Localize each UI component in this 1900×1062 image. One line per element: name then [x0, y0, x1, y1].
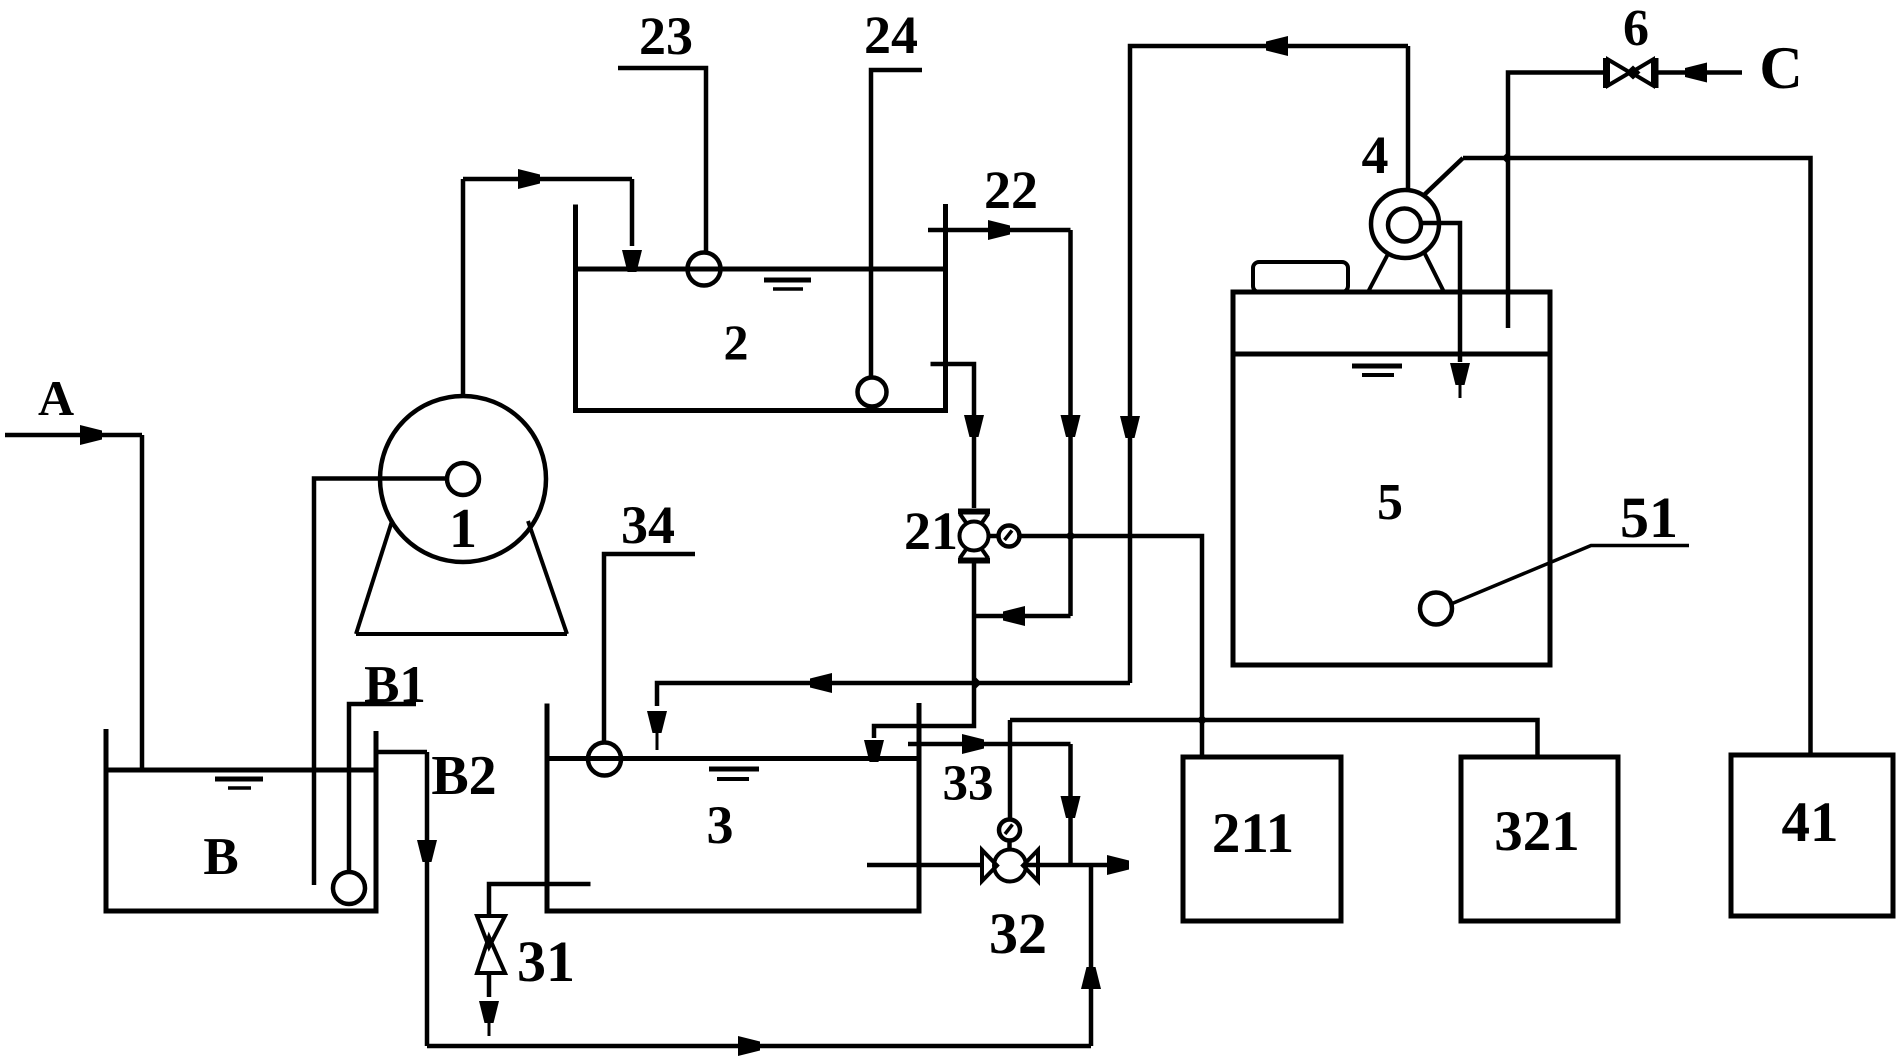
tank 2 [576, 204, 946, 411]
wire pipe A vertical into tank B [140, 435, 145, 770]
svg-text:6: 6 [1623, 0, 1649, 57]
wire pipe C inlet [1658, 70, 1742, 75]
wire valve 32 suction from tank 3 [867, 863, 982, 868]
svg-text:2: 2 [724, 314, 749, 370]
float switch B1 [333, 872, 365, 904]
wire valve 21 outlet down [874, 563, 974, 738]
svg-text:1: 1 [449, 498, 477, 560]
arrow on riser [1081, 967, 1101, 989]
pump 1 body [380, 396, 546, 562]
box 321 [1461, 757, 1618, 921]
wire pump 1 suction from tank B [314, 479, 447, 886]
level sensor 24 leader [871, 70, 922, 378]
wire B1 leader [349, 704, 416, 872]
float switch on tank 2 surface [688, 253, 721, 286]
wire from valve 21 actuator to box 211 [1020, 536, 1203, 757]
wire pump 1 discharge riser [461, 179, 466, 396]
pump 1 hub [447, 463, 479, 495]
wire pipe 22 from tank 2 [928, 228, 1071, 233]
svg-text:211: 211 [1212, 802, 1294, 865]
level sensor 34 leader [604, 554, 695, 742]
level sensor 23 leader [618, 68, 706, 252]
wire pipe A horizontal [5, 433, 142, 438]
svg-text:C: C [1759, 35, 1802, 101]
float switch 51 [1420, 593, 1452, 625]
wire B2 stub from tank B [377, 750, 427, 755]
arrow on pipe 22 [988, 220, 1010, 240]
wire pipe 33 drop to valve 32 line [1068, 744, 1073, 865]
wire discharge drop into tank 2 [630, 179, 635, 246]
arrow suction into tank 5 [1450, 363, 1470, 385]
valve 21 [958, 512, 990, 561]
svg-text:31: 31 [517, 929, 575, 994]
junction node pipe C at pump 4 header [1502, 153, 1513, 164]
water symbol tank 3 [709, 767, 759, 772]
junction node at valve 21 drop and recirculation line [971, 678, 982, 689]
valve 21 actuator stem [989, 534, 999, 539]
float switch low level tank 2 [858, 378, 887, 407]
arrow on that wire [1003, 606, 1025, 626]
arrow discharge right [1107, 855, 1129, 875]
svg-text:321: 321 [1494, 800, 1580, 863]
arrow on pipe A [80, 425, 102, 445]
water symbol tank 2 [764, 278, 811, 283]
junction box on tank 5 lid [1253, 262, 1348, 292]
svg-text:23: 23 [639, 6, 693, 66]
arrow on discharge [518, 169, 540, 189]
wire B2 bottom horizontal [427, 1044, 1091, 1049]
wire recirculation into tank 3 [657, 683, 1130, 706]
svg-text:41: 41 [1782, 791, 1839, 854]
arrow into tank 3 from valve 21 [864, 740, 884, 762]
arrow on valve 21 feed [964, 415, 984, 437]
wire pump 4 discharge header to box 41 [1463, 158, 1811, 755]
valve 6 [1606, 58, 1657, 88]
wire pump 1 discharge horizontal [463, 177, 632, 182]
svg-text:21: 21 [904, 501, 958, 561]
svg-text:33: 33 [943, 756, 994, 812]
wire pump 4 suction into tank 5 [1421, 223, 1460, 362]
arrow on top wire [1266, 36, 1288, 56]
tank 5 [1233, 292, 1550, 665]
wire pipe 22 to valve 21 branch [976, 614, 1071, 619]
wire pump 4 riser to top [1406, 46, 1411, 190]
svg-text:24: 24 [864, 5, 918, 65]
arrow into tank 2 [622, 250, 642, 272]
wire B2 down pipe [425, 752, 430, 1046]
wire pump 4 discharge diagonal [1423, 158, 1463, 196]
arrow on drop [1061, 796, 1081, 818]
valve 32 [982, 850, 1038, 882]
arrow dropping into tank 3 [647, 711, 667, 733]
water symbol tank 5 [1352, 364, 1402, 369]
tank 3 [547, 703, 919, 911]
pump 1 base legs [356, 521, 567, 634]
wire pump 4 recirculation top [1130, 46, 1408, 683]
pump 4 body [1371, 190, 1439, 258]
float switch tank 3 surface [588, 743, 621, 776]
water symbol tank B [215, 777, 263, 782]
tank B [106, 729, 376, 911]
valve 32 actuator circle [999, 820, 1020, 841]
pump 4 hub [1388, 209, 1421, 242]
svg-text:5: 5 [1377, 474, 1403, 531]
wire pipe 22 down [1068, 230, 1073, 616]
wire B2 riser to valve 32 line [1089, 865, 1094, 1046]
svg-text:B1: B1 [364, 656, 426, 714]
arrow on 1130 down [1120, 416, 1140, 438]
wire pipe 33 from tank 3 [908, 742, 1071, 747]
arrow on bottom horizontal [738, 1036, 760, 1056]
wire valve 31 drain [487, 973, 492, 997]
svg-text:A: A [38, 370, 74, 426]
wire valve 6 to tank 5 [1508, 73, 1603, 329]
svg-text:34: 34 [621, 495, 675, 555]
wire drain stub through tank 3 wall [489, 884, 591, 916]
junction node control header at box 211 riser [1197, 715, 1208, 726]
valve 32 actuator stem [1007, 840, 1012, 850]
box 41 [1731, 755, 1893, 916]
arrow on B2 down pipe [417, 840, 437, 862]
wire valve 21 feed stub from tank 2 wall [931, 364, 975, 508]
arrow on pipe 22 down [1061, 415, 1081, 437]
svg-text:4: 4 [1362, 125, 1389, 185]
wire control line to valve 32 actuator [1008, 720, 1013, 820]
svg-text:32: 32 [989, 901, 1047, 966]
arrow on recirculation horizontal [810, 673, 832, 693]
arrow on pipe C [1685, 63, 1707, 83]
svg-text:51: 51 [1620, 485, 1678, 550]
valve 31 [477, 916, 505, 973]
svg-text:3: 3 [707, 795, 734, 855]
wire control header to boxes [1010, 720, 1538, 757]
box 211 [1183, 757, 1341, 921]
junction node on actuator line at pipe 22 riser [1065, 531, 1076, 542]
svg-text:B: B [203, 828, 238, 886]
arrow drain down [479, 1001, 499, 1023]
wire valve 32 discharge [1026, 863, 1127, 868]
svg-text:B2: B2 [431, 745, 496, 807]
leader line 51 [1451, 546, 1689, 605]
pump 4 legs [1368, 252, 1444, 292]
arrow on pipe 33 [962, 734, 984, 754]
svg-text:22: 22 [984, 160, 1038, 220]
valve 21 actuator circle [999, 526, 1020, 547]
